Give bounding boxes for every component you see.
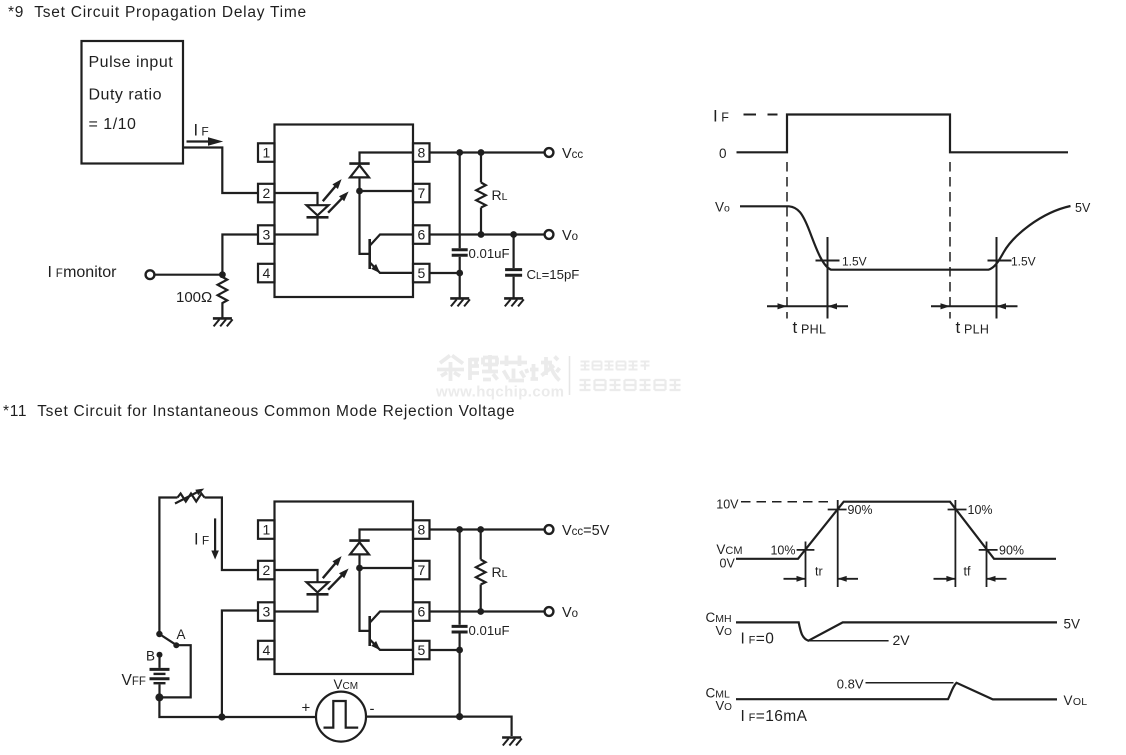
pin 5 — [413, 264, 430, 283]
wire terminal to node — [154, 274, 222, 276]
VCM pulse source — [316, 692, 366, 742]
pin 7 of U2 — [413, 561, 430, 580]
node junction at 100 ohm — [219, 271, 226, 278]
variable resistor — [178, 494, 205, 502]
dashed vertical at pulse fall — [949, 162, 951, 319]
10% tick rise — [797, 549, 815, 551]
node RL bottom U2 — [477, 608, 484, 615]
watermark small line 1 — [581, 362, 650, 371]
svg-text:Vcc: Vcc — [562, 146, 583, 162]
wire pin 2 to LED anode U2 — [275, 570, 318, 582]
wire top-left loop of CM circuit — [159, 498, 258, 635]
watermark small line 2 — [580, 380, 681, 391]
svg-text:3: 3 — [263, 226, 271, 242]
pin 6 — [413, 225, 430, 244]
svg-text:100Ω: 100Ω — [176, 289, 212, 306]
svg-text:10%: 10% — [770, 544, 795, 558]
1.5V crossing tick right — [988, 260, 1012, 262]
svg-text:1: 1 — [263, 144, 271, 160]
svg-text:Vo: Vo — [562, 228, 578, 244]
pin 4 of U2 — [258, 641, 275, 660]
svg-text:5V: 5V — [1075, 201, 1091, 215]
pin 2 of U2 — [258, 561, 275, 580]
svg-text:0V: 0V — [720, 557, 736, 571]
wire pin 5 to ground rail — [430, 272, 460, 274]
10% tick fall — [948, 509, 967, 511]
svg-text:90%: 90% — [848, 503, 873, 517]
svg-text:7: 7 — [418, 185, 426, 201]
wire resistor to ground — [221, 307, 223, 319]
IF level dashes — [744, 114, 778, 116]
90% tick rise — [828, 509, 847, 511]
svg-text:8: 8 — [418, 144, 426, 160]
battery VFF — [158, 657, 160, 668]
svg-text:I F: I F — [713, 107, 729, 126]
wire pin 8 to Vcc — [430, 151, 545, 153]
watermark divider — [569, 356, 571, 395]
svg-text:RL: RL — [492, 564, 508, 580]
svg-text:10%: 10% — [968, 503, 993, 517]
svg-text:3: 3 — [263, 603, 271, 619]
10V dashed level line — [741, 501, 831, 503]
Vcc=5V terminal — [545, 525, 554, 534]
pin 8 — [413, 143, 430, 162]
resistor RL U2 — [480, 530, 482, 560]
resistor RL — [480, 153, 482, 183]
Vcc terminal — [545, 148, 554, 157]
svg-text:2V: 2V — [893, 632, 911, 648]
tf measure arrows — [934, 578, 1007, 580]
svg-text:I F: I F — [194, 531, 209, 549]
svg-text:RL: RL — [492, 187, 508, 203]
node Vcc rail U2 — [456, 526, 463, 533]
svg-text:0.01uF: 0.01uF — [469, 246, 510, 261]
90% tick fall — [979, 549, 998, 551]
node on Vcc rail — [456, 149, 463, 156]
wire pin 3 to bottom rail — [222, 611, 258, 718]
wire node to transistor base U2 — [360, 568, 369, 631]
svg-text:I F: I F — [194, 122, 209, 140]
wire VCM to right ground — [366, 717, 512, 736]
svg-text:0.8V: 0.8V — [837, 677, 864, 692]
svg-text:5: 5 — [418, 265, 426, 281]
pin 3 of U2 — [258, 602, 275, 621]
battery bottom junction node — [155, 693, 163, 701]
pin 2 — [258, 184, 275, 203]
svg-text:= 1/10: = 1/10 — [89, 116, 137, 133]
CML output waveform — [736, 683, 1057, 700]
tick vertical at 1.5V right — [996, 237, 998, 319]
1.5V crossing tick left — [816, 260, 840, 262]
svg-text:0.01uF: 0.01uF — [469, 623, 510, 638]
svg-text:2: 2 — [263, 562, 271, 578]
Vo terminal — [545, 230, 554, 239]
pin 3 — [258, 225, 275, 244]
ground bottom right — [502, 738, 522, 746]
svg-text:Vo: Vo — [715, 200, 730, 215]
wire photodiode anode to node — [358, 177, 360, 191]
svg-text:www.hqchip.com: www.hqchip.com — [435, 384, 564, 401]
node base junction U2 — [356, 565, 363, 572]
wire Vcc rail down through capacitor to rail — [459, 530, 461, 625]
node at CL — [510, 231, 517, 238]
node RL bottom — [478, 231, 485, 238]
svg-text:6: 6 — [418, 226, 426, 242]
resistor 100 ohm — [218, 275, 228, 307]
contact A node — [173, 642, 179, 648]
svg-text:Vcc=5V: Vcc=5V — [562, 523, 610, 539]
node on Vcc rail at RL — [478, 149, 485, 156]
ground under 0.01uF — [450, 298, 470, 306]
wire node down to CL cap — [512, 235, 514, 269]
pin 4 — [258, 264, 275, 283]
transistor Q1 — [368, 239, 371, 269]
wire Vcc rail down to capacitor — [459, 153, 461, 249]
wire pin 8 to photodiode — [360, 153, 414, 164]
tick vertical at 1.5V left — [827, 237, 829, 319]
svg-text:1.5V: 1.5V — [1011, 255, 1036, 269]
rail node at cap branch — [456, 713, 463, 720]
wire node to pin 7 U2 — [360, 567, 414, 569]
Vo terminal U2 — [545, 607, 554, 616]
tPHL measure arrows — [767, 305, 848, 307]
svg-text:I Fmonitor: I Fmonitor — [48, 264, 118, 281]
switch pivot node — [156, 631, 162, 637]
optocoupler U2 body — [275, 502, 414, 675]
CMH output waveform — [736, 622, 1057, 640]
svg-text:8: 8 — [418, 521, 426, 537]
svg-text:10V: 10V — [716, 498, 739, 512]
ground — [213, 318, 233, 326]
svg-text:t PLH: t PLH — [956, 318, 990, 337]
svg-text:VCM: VCM — [716, 542, 742, 557]
svg-text:Pulse input: Pulse input — [89, 54, 174, 71]
svg-text:A: A — [177, 627, 186, 642]
pulse input source box — [82, 41, 184, 164]
svg-text:I F=16mA: I F=16mA — [741, 708, 808, 725]
svg-text:1.5V: 1.5V — [842, 255, 867, 269]
svg-text:*9 Tset Circuit Propagation D: *9 Tset Circuit Propagation Delay Time — [8, 4, 307, 21]
svg-text:tr: tr — [815, 565, 823, 579]
Vo output waveform — [740, 206, 1071, 270]
capacitor 0.01uF U2 — [452, 625, 468, 628]
tick verticals rise — [806, 500, 838, 587]
svg-text:6: 6 — [418, 603, 426, 619]
pin 6 of U2 — [413, 602, 430, 621]
svg-text:4: 4 — [263, 265, 271, 281]
svg-text:-: - — [370, 701, 375, 718]
rail node at pin3 branch — [218, 713, 225, 720]
wire node to transistor base — [360, 191, 369, 254]
svg-text:5: 5 — [418, 642, 426, 658]
svg-text:Vo: Vo — [562, 605, 578, 621]
wire battery junction to rail — [159, 697, 316, 717]
VCM trapezoid waveform — [736, 502, 1056, 559]
svg-text:4: 4 — [263, 642, 271, 658]
node pin5 — [456, 270, 463, 277]
tPLH measure arrows — [931, 305, 1018, 307]
node Vcc rail at RL U2 — [477, 526, 484, 533]
optocoupler U1 body — [275, 125, 414, 298]
pin 1 of U2 — [258, 520, 275, 539]
tr measure arrows — [784, 578, 859, 580]
wire pin 8 to Vcc=5V — [430, 528, 545, 530]
wire CL to ground — [512, 277, 514, 299]
pin 1 — [258, 143, 275, 162]
wire pin 6 to Vo — [430, 233, 545, 235]
svg-text:Duty ratio: Duty ratio — [89, 87, 162, 104]
wire contact A loop to battery bottom — [159, 645, 190, 697]
svg-text:VOL: VOL — [1064, 693, 1088, 708]
contact B node — [157, 652, 163, 658]
ground under CL — [504, 298, 524, 306]
svg-text:5V: 5V — [1064, 617, 1081, 632]
wire pin 6 to Vo U2 — [430, 610, 545, 612]
photodiode — [349, 162, 369, 165]
IF pulse waveform — [737, 115, 1069, 153]
svg-text:90%: 90% — [999, 544, 1024, 558]
capacitor CL 15pF — [505, 268, 522, 271]
pin 8 of U2 — [413, 520, 430, 539]
watermark big glyphs — [437, 355, 560, 381]
wire pulse box to pin 2 — [183, 148, 258, 194]
svg-text:2: 2 — [263, 185, 271, 201]
capacitor 0.01uF — [452, 248, 468, 251]
light emission arrow 1 — [323, 186, 336, 202]
light emission arrow 2 U2 — [328, 575, 343, 590]
node pin5 U2 — [456, 647, 463, 654]
svg-text:*11 Tset Circuit for Instanta: *11 Tset Circuit for Instantaneous Commo… — [3, 403, 515, 420]
wire capacitor to ground — [459, 257, 461, 299]
svg-text:1: 1 — [263, 521, 271, 537]
wire photodiode anode to node U2 — [358, 554, 360, 568]
svg-text:B: B — [146, 649, 155, 664]
svg-text:t PHL: t PHL — [793, 318, 827, 337]
wire pin 2 to LED anode — [275, 193, 318, 205]
wire capacitor down to bottom rail — [459, 634, 461, 717]
tick verticals fall — [955, 500, 986, 587]
svg-text:+: + — [302, 700, 311, 717]
svg-text:tf: tf — [964, 565, 971, 579]
LED D2 — [307, 582, 329, 592]
pin 7 — [413, 184, 430, 203]
wire node to pin 7 — [360, 190, 414, 192]
transistor Q2 — [368, 616, 371, 646]
light emission arrow 2 — [328, 198, 343, 213]
svg-text:0: 0 — [719, 146, 727, 161]
wire LED cathode to pin 3 U2 — [275, 594, 318, 611]
dashed vertical at pulse rise — [786, 162, 788, 319]
svg-text:CL=15pF: CL=15pF — [527, 267, 580, 282]
svg-text:VO: VO — [716, 623, 733, 638]
wire pin 5 to cap rail U2 — [430, 649, 460, 651]
IF monitor terminal — [146, 270, 155, 279]
wire pin 8 to photodiode U2 — [360, 530, 414, 541]
node base junction — [356, 188, 363, 195]
switch blade — [159, 634, 175, 645]
svg-text:I F=0: I F=0 — [741, 631, 775, 648]
2V level line — [808, 640, 888, 642]
svg-text:VCM: VCM — [334, 677, 359, 692]
pin 5 of U2 — [413, 641, 430, 660]
0.8V level line — [866, 682, 954, 684]
LED D1 — [307, 205, 329, 215]
svg-text:VFF: VFF — [122, 672, 146, 689]
light emission arrow 1 U2 — [323, 563, 336, 579]
wire pin 3 down to IF monitor node — [222, 235, 258, 275]
wire LED cathode to pin 3 — [275, 217, 318, 234]
photodiode U2 — [349, 539, 369, 542]
svg-text:7: 7 — [418, 562, 426, 578]
